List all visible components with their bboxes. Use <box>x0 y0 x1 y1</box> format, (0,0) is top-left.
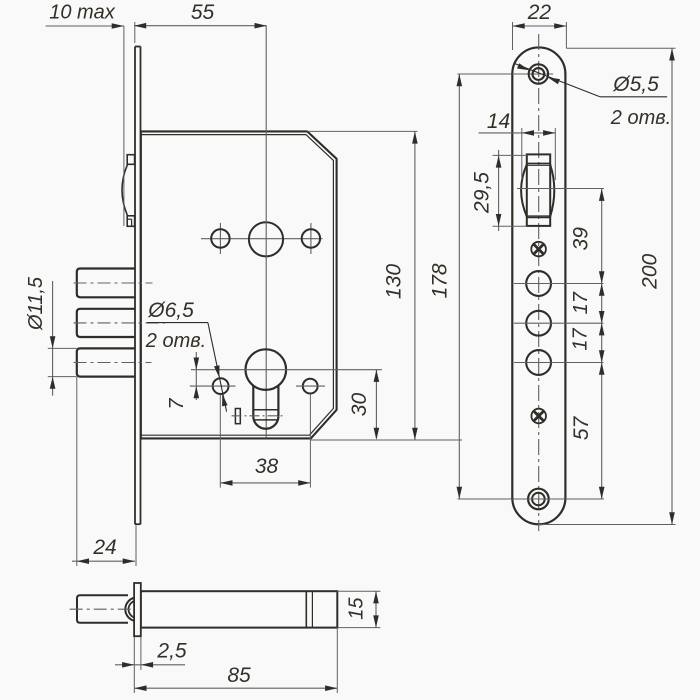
svg-text:200: 200 <box>639 253 662 289</box>
svg-text:130: 130 <box>383 264 406 299</box>
svg-text:17: 17 <box>570 291 592 314</box>
svg-text:Ø6,5: Ø6,5 <box>147 299 194 322</box>
svg-text:15: 15 <box>346 597 368 620</box>
svg-text:Ø11,5: Ø11,5 <box>25 276 47 331</box>
svg-text:2 отв.: 2 отв. <box>610 107 671 129</box>
svg-text:2 отв.: 2 отв. <box>145 330 206 352</box>
svg-text:14: 14 <box>487 110 510 133</box>
svg-text:29,5: 29,5 <box>471 172 494 214</box>
svg-text:7: 7 <box>166 398 188 410</box>
svg-text:178: 178 <box>429 263 452 298</box>
svg-text:2,5: 2,5 <box>156 640 187 663</box>
svg-text:17: 17 <box>570 328 592 351</box>
svg-text:Ø5,5: Ø5,5 <box>612 73 659 96</box>
svg-text:22: 22 <box>527 1 552 24</box>
svg-text:85: 85 <box>227 664 251 687</box>
svg-text:57: 57 <box>570 415 593 440</box>
svg-text:24: 24 <box>92 536 116 559</box>
svg-text:10 max: 10 max <box>49 2 116 24</box>
svg-text:30: 30 <box>348 393 371 417</box>
svg-text:39: 39 <box>570 227 593 251</box>
svg-text:55: 55 <box>191 1 215 24</box>
svg-text:38: 38 <box>255 455 279 478</box>
